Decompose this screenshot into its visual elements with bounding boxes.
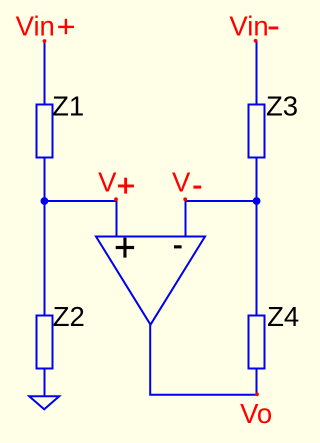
svg-text:Vin: Vin [229,11,268,42]
svg-text:V: V [98,166,117,197]
svg-text:V: V [172,166,191,197]
svg-text:Z1: Z1 [52,90,84,121]
svg-text:Vo: Vo [240,398,272,429]
svg-text:Vin: Vin [16,11,55,42]
svg-text:Z2: Z2 [53,301,85,332]
svg-text:Z4: Z4 [267,301,299,332]
svg-text:Z3: Z3 [266,90,298,121]
